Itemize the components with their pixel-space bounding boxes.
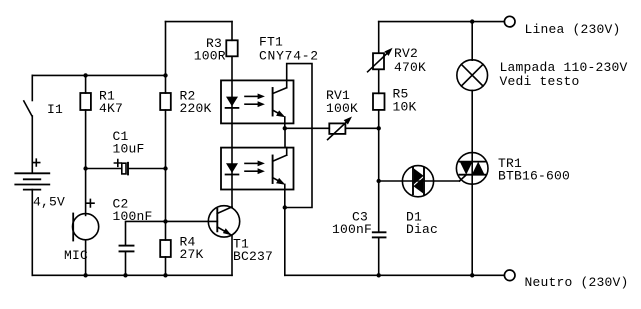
- node dot R2 top: [163, 73, 167, 77]
- battery plus sign: [33, 159, 40, 166]
- capacitor C1 10uF: [86, 163, 166, 175]
- wire R2 line top: [165, 22, 167, 93]
- node dot MIC-rail: [83, 273, 87, 277]
- wire opto to bottom rail: [284, 208, 286, 276]
- node dot lamp top: [470, 19, 474, 23]
- svg-text:CNY74-2: CNY74-2: [259, 49, 319, 64]
- optocoupler FT1 upper half box: [221, 80, 294, 123]
- node dot C1 tap: [83, 166, 87, 170]
- battery BT1 4,5V: [15, 173, 49, 189]
- node dot C2-rail: [123, 273, 127, 277]
- microphone MIC: [73, 214, 99, 241]
- C1 plus sign: [114, 160, 121, 167]
- node dot R4-rail: [163, 273, 167, 277]
- terminal Neutro: [504, 270, 515, 281]
- node dot R1 top: [83, 73, 87, 77]
- svg-text:10uF: 10uF: [113, 142, 145, 157]
- node dot diac tap: [377, 179, 381, 183]
- lamp LP1: [457, 22, 488, 276]
- resistor R3: [226, 40, 237, 56]
- wire left ground rail: [32, 274, 232, 276]
- node dot C3-rail: [377, 273, 381, 277]
- switch I1: [24, 75, 33, 173]
- svg-text:MIC: MIC: [64, 248, 88, 263]
- light arrows lower: [245, 161, 265, 175]
- wire R2 bottom to R4: [165, 110, 167, 240]
- wire collector loop: [285, 64, 312, 208]
- resistor R5: [373, 93, 385, 110]
- transistor T1 BC237: [208, 206, 239, 276]
- svg-text:220K: 220K: [180, 101, 212, 116]
- wire R4 bottom: [165, 257, 167, 275]
- phototransistor lower: [273, 128, 287, 207]
- triac TR1 BTB16-600: [456, 153, 488, 185]
- node dot base junction: [163, 219, 167, 223]
- capacitor C3 100nF: [373, 232, 386, 275]
- resistor R4: [160, 240, 171, 257]
- diac D1: [402, 166, 433, 197]
- phototransistor upper: [273, 88, 287, 129]
- node dot RV1-R5: [377, 126, 381, 130]
- wire top-right rail: [379, 21, 505, 23]
- optocoupler FT1 lower half box: [221, 148, 294, 190]
- terminal Linea: [504, 16, 515, 27]
- svg-text:Vedi testo: Vedi testo: [500, 74, 580, 89]
- wire R5 bottom: [378, 110, 380, 181]
- svg-text:4,5V: 4,5V: [33, 195, 65, 210]
- svg-text:BC237: BC237: [233, 249, 273, 264]
- svg-text:27K: 27K: [180, 247, 204, 262]
- wire MIC bottom: [85, 240, 87, 275]
- node dot TR1-rail: [470, 273, 474, 277]
- wire to C3: [378, 181, 380, 232]
- wire RV1 to R5 line: [345, 127, 378, 129]
- node dot C1-R2: [163, 166, 167, 170]
- LED D-lower in opto: [226, 163, 239, 174]
- resistor R1: [80, 93, 91, 110]
- svg-text:10K: 10K: [393, 100, 417, 115]
- svg-text:Neutro (230V): Neutro (230V): [525, 275, 629, 290]
- wire LED chain R3 to T1: [231, 56, 233, 207]
- svg-text:Diac: Diac: [406, 222, 438, 237]
- node dot e2-c1 junction: [283, 205, 287, 209]
- wire top-left rail: [32, 74, 165, 76]
- svg-text:470K: 470K: [394, 60, 426, 75]
- wire RV1 net: [285, 127, 330, 129]
- resistor R2: [160, 93, 171, 110]
- svg-text:100nF: 100nF: [113, 209, 153, 224]
- wire right ground rail: [285, 274, 504, 276]
- svg-text:BTB16-600: BTB16-600: [498, 169, 570, 184]
- svg-text:RV2: RV2: [394, 46, 418, 61]
- wire diac gate net: [379, 180, 460, 182]
- svg-text:I1: I1: [47, 102, 63, 117]
- light arrows upper: [245, 94, 265, 108]
- wire R1 bottom to MIC: [85, 110, 87, 215]
- potentiometer RV2 470K: [368, 22, 393, 94]
- wire R3 top: [231, 22, 233, 41]
- svg-text:FT1: FT1: [259, 35, 283, 50]
- svg-text:4K7: 4K7: [99, 101, 123, 116]
- wire battery bottom: [31, 190, 33, 276]
- wire top link R2 to R3: [166, 21, 233, 23]
- node dot e1-c2 junction: [283, 126, 287, 130]
- svg-text:100nF: 100nF: [332, 222, 372, 237]
- MIC plus sign: [87, 199, 94, 207]
- wire R1 top: [85, 75, 87, 93]
- svg-text:Linea (230V): Linea (230V): [525, 22, 621, 37]
- LED D-upper in opto: [226, 97, 239, 108]
- svg-text:100K: 100K: [326, 101, 358, 116]
- svg-text:100R: 100R: [194, 49, 226, 64]
- potentiometer RV1 100K: [328, 117, 352, 140]
- svg-text:Lampada 110-230V: Lampada 110-230V: [500, 60, 628, 75]
- capacitor C2 100nF: [120, 221, 218, 275]
